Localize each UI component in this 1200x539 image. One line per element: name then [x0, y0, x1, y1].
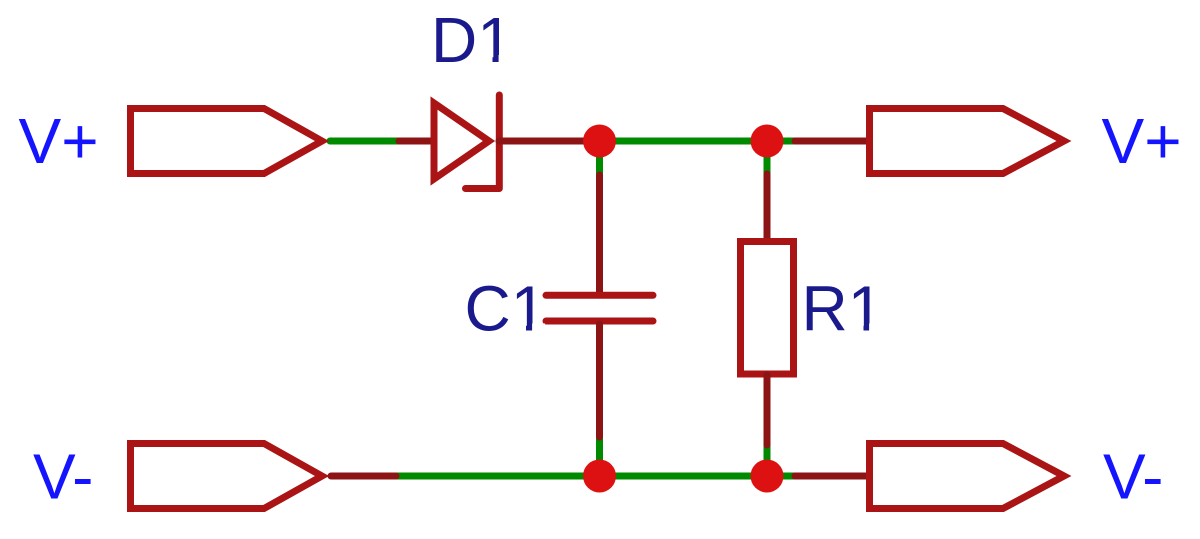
wire [596, 438, 603, 476]
wire [600, 473, 768, 480]
wire [394, 473, 600, 480]
capacitor C1 [546, 175, 653, 437]
port V+ left [131, 109, 323, 174]
svg-text:V+: V+ [1102, 105, 1182, 177]
resistor R1 [741, 174, 794, 445]
serif patch for D1 digit [481, 55, 493, 64]
serif patch for R1 digit [852, 324, 864, 333]
diode D1 [399, 95, 588, 189]
wire [795, 473, 869, 480]
wire [767, 138, 799, 145]
wire [330, 138, 402, 145]
serif patch for C1 digit [514, 324, 526, 333]
junction dot [751, 125, 784, 158]
wire [764, 446, 771, 476]
junction dot [583, 460, 616, 493]
wire [764, 141, 771, 176]
svg-text:D1: D1 [431, 4, 513, 76]
wire [795, 138, 869, 145]
svg-text:V-: V- [33, 441, 93, 513]
junction dot [583, 125, 616, 158]
junction dot [751, 460, 784, 493]
svg-text:V-: V- [1103, 441, 1163, 513]
svg-text:V+: V+ [19, 105, 99, 177]
wire [767, 473, 799, 480]
wire [600, 138, 768, 145]
svg-text:R1: R1 [802, 273, 884, 345]
port V+ right [870, 109, 1065, 174]
wire [331, 473, 396, 480]
wire [596, 141, 603, 178]
svg-text:C1: C1 [465, 273, 547, 345]
port V- left [131, 444, 323, 509]
port V- right [870, 444, 1065, 509]
